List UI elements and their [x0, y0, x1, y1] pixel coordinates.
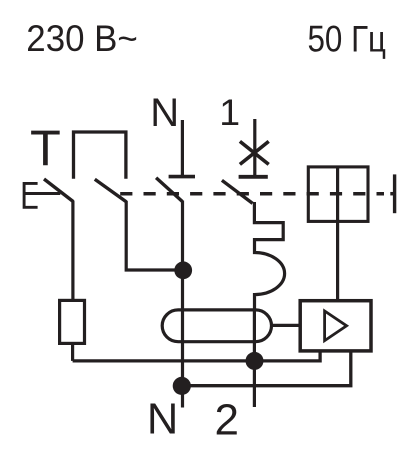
thermal overload element	[254, 202, 284, 310]
N switch blade	[156, 178, 182, 202]
breaker X symbol	[240, 141, 269, 164]
svg-text:50 Гц: 50 Гц	[308, 19, 387, 60]
wire resistor to line1	[71, 343, 74, 361]
test button actuator	[24, 192, 60, 195]
switch S2 blade	[95, 179, 126, 202]
test switch blade	[44, 179, 73, 202]
dashed linkage stub at tick	[390, 192, 393, 196]
svg-text:230 В~: 230 В~	[26, 18, 138, 59]
svg-text:N: N	[147, 395, 178, 443]
svg-text:T: T	[30, 119, 61, 176]
amplifier triangle	[325, 311, 347, 341]
linkage end tick	[393, 174, 396, 213]
wire N vertical	[181, 201, 184, 408]
dashed linkage line	[120, 192, 384, 196]
resistor R test	[60, 300, 85, 343]
node C junction	[174, 261, 192, 279]
amplifier box U1	[300, 301, 371, 351]
trip mechanism box	[308, 167, 368, 222]
mechanism divider and wire to amplifier	[336, 167, 339, 301]
wire line1 resistor to amplifier pin	[73, 353, 321, 361]
wire pole1 vertical to terminal 2	[253, 309, 256, 407]
test button bracket	[24, 183, 37, 207]
wire CT to amplifier	[272, 324, 300, 327]
svg-text:1: 1	[219, 91, 240, 133]
wire test blade to resistor	[71, 201, 74, 300]
node A junction	[246, 352, 264, 370]
N input lead	[181, 120, 184, 175]
svg-text:N: N	[150, 91, 179, 135]
pole1 switch blade	[222, 180, 253, 203]
pole1 input lead	[253, 119, 256, 175]
current transformer core	[162, 310, 271, 342]
node B junction	[173, 377, 191, 395]
svg-text:2: 2	[215, 396, 239, 445]
wire S2 down to node C	[126, 201, 183, 270]
wire line2 node B to amplifier pin	[182, 353, 350, 386]
pole1 fixed contact bar	[239, 175, 268, 179]
N fixed contact bar	[169, 175, 195, 179]
wire bracket over test and S2	[74, 132, 126, 179]
